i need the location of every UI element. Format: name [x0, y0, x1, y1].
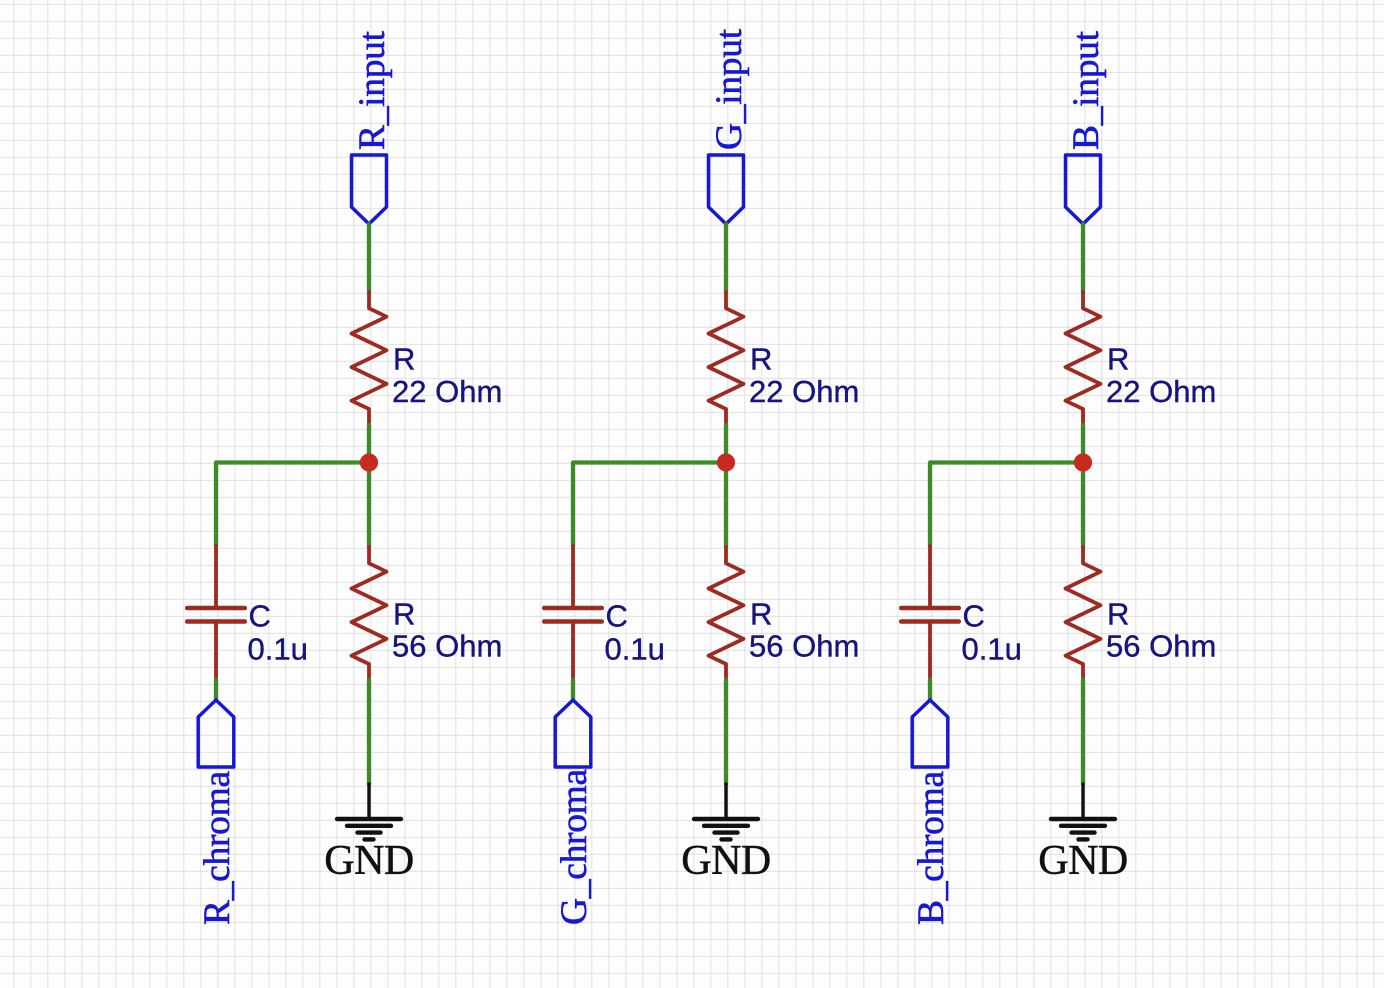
svg-text:C: C — [963, 599, 985, 634]
svg-text:B_input: B_input — [1066, 30, 1107, 150]
svg-text:22 Ohm: 22 Ohm — [392, 374, 502, 409]
svg-text:R: R — [1107, 342, 1129, 377]
svg-text:R: R — [1107, 596, 1129, 631]
wire node to R 56 Ohm — [367, 463, 371, 548]
svg-text:0.1u: 0.1u — [248, 632, 308, 667]
wire C to B_chroma — [928, 680, 932, 700]
wire R 22 Ohm to node — [1081, 425, 1085, 463]
wire node to C branch — [216, 463, 369, 547]
resistor R 56 Ohm — [1066, 547, 1101, 680]
svg-text:R: R — [750, 342, 772, 377]
svg-text:B_chroma: B_chroma — [911, 771, 952, 925]
capacitor C 0.1u — [187, 546, 245, 680]
node junction dot — [360, 453, 378, 471]
svg-text:G_input: G_input — [709, 28, 750, 150]
wire C to R_chroma — [214, 680, 218, 700]
port G_input — [709, 155, 744, 224]
svg-text:R_input: R_input — [352, 30, 393, 150]
svg-text:GND: GND — [681, 838, 771, 884]
svg-text:R: R — [393, 596, 415, 631]
node junction dot — [1074, 453, 1092, 471]
svg-text:R: R — [393, 342, 415, 377]
svg-text:56 Ohm: 56 Ohm — [392, 629, 502, 664]
svg-text:22 Ohm: 22 Ohm — [1106, 374, 1216, 409]
svg-text:56 Ohm: 56 Ohm — [749, 629, 859, 664]
svg-text:GND: GND — [324, 838, 414, 884]
wire node to C branch — [930, 463, 1083, 547]
svg-text:0.1u: 0.1u — [605, 632, 665, 667]
wire R_input to R 22 Ohm — [367, 224, 371, 292]
wire node to C branch — [573, 463, 726, 547]
capacitor C 0.1u — [901, 546, 959, 680]
capacitor C 0.1u — [544, 546, 602, 680]
wire node to R 56 Ohm — [724, 463, 728, 548]
svg-text:56 Ohm: 56 Ohm — [1106, 629, 1216, 664]
ground GND — [337, 784, 401, 839]
svg-text:G_chroma: G_chroma — [554, 768, 595, 925]
ground GND — [694, 784, 758, 839]
wire R 56 Ohm to ground — [1081, 680, 1085, 784]
resistor R 22 Ohm — [709, 292, 744, 425]
svg-text:0.1u: 0.1u — [962, 632, 1022, 667]
wire G_input to R 22 Ohm — [724, 224, 728, 292]
port G_chroma — [555, 700, 591, 767]
resistor R 22 Ohm — [352, 292, 387, 425]
svg-text:R: R — [750, 596, 772, 631]
wire R 56 Ohm to ground — [724, 680, 728, 784]
port R_input — [352, 155, 387, 224]
resistor R 56 Ohm — [352, 547, 387, 680]
resistor R 22 Ohm — [1066, 292, 1101, 425]
wire node to R 56 Ohm — [1081, 463, 1085, 548]
wire R 22 Ohm to node — [724, 425, 728, 463]
svg-text:22 Ohm: 22 Ohm — [749, 374, 859, 409]
wire B_input to R 22 Ohm — [1081, 224, 1085, 292]
port B_input — [1066, 155, 1101, 224]
svg-text:C: C — [606, 599, 628, 634]
ground GND — [1051, 784, 1115, 839]
svg-text:C: C — [249, 599, 271, 634]
svg-text:R_chroma: R_chroma — [197, 771, 238, 925]
wire C to G_chroma — [571, 680, 575, 700]
node junction dot — [717, 453, 735, 471]
wire R 56 Ohm to ground — [367, 680, 371, 784]
port R_chroma — [198, 700, 234, 767]
wire R 22 Ohm to node — [367, 425, 371, 463]
svg-text:GND: GND — [1038, 838, 1128, 884]
port B_chroma — [912, 700, 948, 767]
resistor R 56 Ohm — [709, 547, 744, 680]
